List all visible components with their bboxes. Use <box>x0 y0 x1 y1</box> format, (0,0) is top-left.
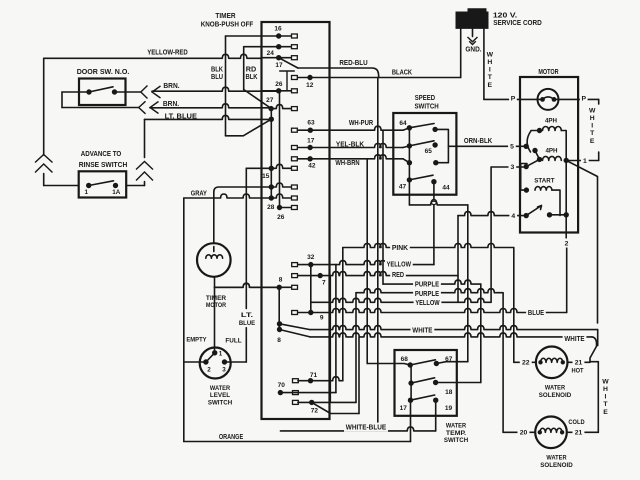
svg-text:SWITCH: SWITCH <box>444 437 468 444</box>
timer terminal rect 12 <box>292 76 298 80</box>
wire timer row 70 <box>280 392 336 394</box>
svg-text:WHITE-BLUE: WHITE-BLUE <box>346 425 387 432</box>
svg-text:ORN-BLK: ORN-BLK <box>464 136 493 145</box>
wire rail 67 <box>467 205 469 362</box>
svg-text:P: P <box>511 95 516 102</box>
wire timer row 32 YELLOW <box>298 261 434 265</box>
wire plug hot drop <box>460 28 462 77</box>
wire BLACK rail <box>377 78 379 431</box>
label WHITE B <box>563 334 587 343</box>
wire timer motor to wls <box>214 277 216 353</box>
svg-text:EMPTY: EMPTY <box>186 337 207 344</box>
wire speed 47 drop <box>408 180 410 205</box>
wire coil 4ph2 <box>543 156 562 160</box>
wire speed F stub <box>436 146 449 162</box>
wire WHITE-BLUE row <box>280 427 435 431</box>
timer terminal rect 7 <box>292 274 298 278</box>
wire BLK-BLU elbow blade <box>226 119 272 136</box>
wire motor 1-2 vertical <box>565 160 567 238</box>
wire coil start <box>535 187 552 191</box>
timer terminal rect 15 <box>292 166 298 170</box>
timer terminal rect 70 <box>293 391 299 395</box>
timer contact dot 24 <box>276 55 281 60</box>
wire timer row 24 <box>262 57 292 59</box>
timer terminal rect 32 <box>292 263 298 267</box>
disconnect chevrons rinse right <box>136 162 153 181</box>
label YELLOW 1 <box>385 259 413 268</box>
label 3 <box>509 162 517 171</box>
wire solenoid 21 bracket <box>597 362 599 433</box>
timer contact dot lt-blue <box>269 117 274 122</box>
door switch terminal right <box>112 89 117 94</box>
wire rail YELLOW to 70row <box>335 265 337 393</box>
label PURPLE 1 <box>413 280 441 289</box>
wire hot right lead <box>568 361 591 363</box>
wire vertical 8a to 8b <box>278 287 280 329</box>
svg-text:WATER: WATER <box>446 422 466 429</box>
120V service cord plug <box>456 9 488 29</box>
wire LT BLUE wire <box>145 115 272 119</box>
wire white P-1 bracket lower <box>598 152 600 161</box>
svg-text:LT.: LT. <box>241 312 253 319</box>
svg-text:PURPLE: PURPLE <box>415 291 440 298</box>
wire cold elbow <box>503 431 535 433</box>
wire white P-1 bracket upper <box>598 99 600 104</box>
svg-text:YELLOW: YELLOW <box>415 300 440 307</box>
water temp switch box <box>395 350 457 416</box>
wire timer row 72 <box>298 401 356 403</box>
wire cold right lead <box>567 431 599 433</box>
svg-text:19: 19 <box>445 405 453 412</box>
wire RD-BLK blade to 27 <box>244 90 271 109</box>
svg-text:3: 3 <box>222 367 226 374</box>
svg-text:8: 8 <box>277 337 281 344</box>
wire hot 21 stub <box>590 361 598 363</box>
svg-text:LEVEL: LEVEL <box>210 392 230 399</box>
wire timer row 26b <box>280 207 292 209</box>
wire timer row 26a <box>262 90 292 92</box>
svg-text:17: 17 <box>275 62 283 69</box>
advance-to-rinse switch box <box>79 171 127 197</box>
wire ORN-BLK row <box>456 145 526 147</box>
wire elbow to dot 68 <box>367 364 410 366</box>
svg-text:20: 20 <box>520 430 528 437</box>
wire gnd stub <box>472 28 474 36</box>
svg-text:2: 2 <box>207 367 211 374</box>
water solenoid HOT <box>536 347 568 379</box>
svg-text:WH-PUR: WH-PUR <box>349 118 374 127</box>
svg-text:MOTOR: MOTOR <box>538 67 559 76</box>
wire door sw left loop top <box>62 91 89 93</box>
wire BRN wire 1 <box>152 87 279 91</box>
motor overload protector <box>538 89 559 110</box>
wire cold coil <box>540 428 562 432</box>
svg-text:27: 27 <box>266 97 274 104</box>
wire row 8 feed <box>215 283 280 287</box>
wire rail motor3 <box>490 167 492 302</box>
timer terminal rect 42 <box>292 157 298 161</box>
wire blade 24 to 17 row <box>279 58 298 68</box>
wire rail PURPLE2 to 72row <box>355 293 357 403</box>
svg-text:24: 24 <box>267 50 275 57</box>
timer contact dot 27 <box>268 106 273 111</box>
svg-text:68: 68 <box>401 356 409 363</box>
svg-text:RED: RED <box>392 272 404 279</box>
wire row 12 to junction <box>330 77 461 79</box>
label WHITE-BLUE <box>344 423 388 432</box>
svg-text:4PH: 4PH <box>545 118 557 125</box>
wire timer row 12 <box>298 77 330 79</box>
svg-text:RED-BLU: RED-BLU <box>339 58 367 67</box>
timer contact dot 42 <box>307 156 312 161</box>
svg-text:BLUE: BLUE <box>528 310 544 317</box>
wire RD-BLK vertical <box>243 47 245 90</box>
wire timer row 17b YEL-BLK <box>298 144 403 148</box>
wire WH-BRN into speed sw <box>403 159 409 163</box>
svg-text:BRN.: BRN. <box>163 81 179 90</box>
wire lt blue drop to rinse <box>144 119 146 157</box>
timer terminal rect row2 <box>292 45 298 49</box>
wire wire to rinse switch <box>44 185 79 187</box>
wire elbow to dot 67 <box>436 362 467 364</box>
rinse terminal 1A <box>113 183 118 188</box>
motor junction dot 1 <box>564 158 569 163</box>
svg-text:65: 65 <box>425 148 433 155</box>
svg-text:21: 21 <box>575 360 583 367</box>
motor dot 5 <box>524 144 529 149</box>
timer terminal rect 8a <box>292 285 298 289</box>
wire wls blade <box>206 353 215 362</box>
protector dot right <box>552 97 557 102</box>
start coil left dot <box>524 187 529 192</box>
wire plug white drop <box>483 28 485 99</box>
wire timer row 42 WH-BRN <box>298 155 403 159</box>
timer terminal rect 9 <box>292 311 298 315</box>
label P right <box>580 94 588 103</box>
wire YEL-BLK into speed sw <box>403 146 409 148</box>
timer contact dot 26a <box>276 88 281 93</box>
wire LT BLUE 2 vertical lower <box>245 328 247 363</box>
svg-text:5: 5 <box>510 144 514 151</box>
timer contact dot 12 <box>307 75 312 80</box>
wire rail PINK to hot <box>513 248 515 363</box>
timer contact dot 8b1 <box>277 321 282 326</box>
wire wls 2 lead <box>184 361 206 363</box>
svg-text:PINK: PINK <box>392 245 408 252</box>
svg-text:26: 26 <box>275 81 283 88</box>
svg-text:P: P <box>582 95 587 102</box>
svg-text:18: 18 <box>445 389 453 396</box>
wire temp blade mid <box>411 378 435 383</box>
wire coil1 right lead <box>561 131 566 161</box>
svg-text:1: 1 <box>583 158 587 165</box>
svg-text:SPEED: SPEED <box>415 93 435 102</box>
wire coil 4ph1 <box>543 126 562 130</box>
wire rail WH-PUR to PURPLE1 <box>382 130 384 284</box>
wire timer motor coil <box>206 255 223 258</box>
svg-text:1: 1 <box>85 189 89 196</box>
push-off cam symbol <box>279 71 295 91</box>
svg-text:BLK: BLK <box>245 72 258 81</box>
coil2 left dot <box>537 157 542 162</box>
wire door sw right lead <box>115 91 141 93</box>
svg-text:YELLOW-RED: YELLOW-RED <box>147 48 188 57</box>
wire speed left column <box>408 128 410 180</box>
speed dot 47 <box>407 177 412 182</box>
timer contact dot 28 <box>269 195 274 200</box>
temp dot 17c <box>408 398 413 403</box>
wire timer vertical 279 <box>279 91 281 208</box>
speed dot 65 <box>432 142 437 147</box>
wire door sw loop bottom <box>62 107 139 109</box>
wire motor 2 drop <box>566 248 568 313</box>
svg-text:START: START <box>534 177 554 184</box>
timer contact dot 8b2 <box>277 327 282 332</box>
wire timer row 8a <box>215 283 292 287</box>
wire coil1 left lead <box>531 130 540 132</box>
label P left <box>509 94 517 103</box>
svg-text:70: 70 <box>278 382 286 389</box>
label PURPLE 2 <box>413 289 441 298</box>
wire start switch link <box>550 214 567 216</box>
wire WHITE row B <box>310 333 592 337</box>
wls dot 2 <box>203 359 208 364</box>
start switch dot <box>547 212 552 217</box>
wire timer row 16 <box>226 35 292 37</box>
svg-text:ADVANCE TO: ADVANCE TO <box>81 149 122 158</box>
svg-text:28: 28 <box>267 204 275 211</box>
timer contact dot 32 <box>308 262 313 267</box>
svg-text:TEMP.: TEMP. <box>446 430 466 437</box>
svg-text:SERVICE CORD: SERVICE CORD <box>493 18 542 27</box>
speed dot E <box>407 160 412 165</box>
svg-text:16: 16 <box>274 25 282 32</box>
wire BLK-BLU vertical <box>225 36 227 136</box>
wire left drop lower <box>43 174 45 186</box>
timer terminal rect 28 <box>292 196 298 200</box>
svg-text:WATER: WATER <box>545 385 565 392</box>
wire rail PINK to 71row <box>342 248 344 381</box>
wire start coil right lead <box>552 190 560 215</box>
speed dot B <box>432 127 437 132</box>
label 21 cold <box>573 428 585 437</box>
wire hot elbow <box>514 361 536 363</box>
label 20 <box>518 428 530 437</box>
wire motor 3 blade <box>526 159 539 166</box>
timer contact dot 8a <box>277 285 282 290</box>
svg-text:SOLENOID: SOLENOID <box>540 462 572 469</box>
wire speed B to ORN-BLK <box>435 129 456 146</box>
timer contact dot mid <box>269 184 274 189</box>
timer terminal rect 26b <box>292 206 298 210</box>
svg-text:KNOB-PUSH OFF: KNOB-PUSH OFF <box>201 20 254 29</box>
wire wls 3 lead <box>225 361 247 363</box>
svg-text:SWITCH: SWITCH <box>414 102 438 111</box>
svg-text:WHITE: WHITE <box>412 327 432 334</box>
svg-text:SOLENOID: SOLENOID <box>539 392 571 399</box>
temp dot 19 <box>433 398 438 403</box>
svg-text:HOT: HOT <box>571 368 584 375</box>
svg-text:GND.: GND. <box>465 45 481 54</box>
cold dot left <box>538 430 542 434</box>
temp dot mid-l <box>408 380 413 385</box>
wire motor 3 row <box>491 166 526 168</box>
svg-text:GRAY: GRAY <box>191 189 207 198</box>
wire RED-BLU wire <box>330 68 379 78</box>
svg-text:44: 44 <box>442 185 450 192</box>
wire timer-motor feed elbow <box>214 187 247 244</box>
svg-text:15: 15 <box>262 173 270 180</box>
wls dot 3 <box>222 359 227 364</box>
svg-text:COLD: COLD <box>568 419 584 426</box>
wire rinse switch blade <box>89 181 114 186</box>
svg-text:63: 63 <box>307 119 315 126</box>
motor box <box>520 77 578 233</box>
wire rinse right lead <box>126 185 144 187</box>
wire rail 42 to 68 <box>366 159 368 364</box>
motor dot 4 <box>524 213 529 218</box>
wire slant 8b1 to white row <box>280 324 311 330</box>
svg-text:RINSE SWITCH: RINSE SWITCH <box>79 160 128 169</box>
wire motor P right <box>555 98 599 100</box>
rinse terminal 1 <box>86 183 91 188</box>
wire rail PURPLE2 to cold <box>502 293 504 432</box>
disconnect symbol BRN 2 <box>139 101 159 114</box>
svg-text:WATER: WATER <box>210 385 230 392</box>
wire timer motor inner lead <box>213 247 215 252</box>
wire slant 8b2 to row B <box>280 330 311 337</box>
wire speed 44 drop a <box>433 182 435 200</box>
svg-text:32: 32 <box>307 254 315 261</box>
wire start switch blade <box>526 206 541 216</box>
wire PURPLE row 2 <box>356 289 503 293</box>
wire timer row 9 BLUE <box>298 309 567 313</box>
wire rail 18 <box>480 284 482 382</box>
svg-text:4: 4 <box>511 213 515 220</box>
svg-text:1: 1 <box>219 350 223 357</box>
timer terminal rect 24 <box>292 56 298 60</box>
wire YELLOW-RED <box>44 54 262 58</box>
timer contact dot 63 <box>308 128 313 133</box>
wire start coil left bracket <box>521 164 527 191</box>
door switch box <box>79 79 126 106</box>
timer terminal rect 17b <box>292 146 298 150</box>
svg-text:72: 72 <box>311 408 319 415</box>
ground symbol <box>468 37 478 45</box>
wire temp blade 17 <box>411 395 435 400</box>
label YELLOW 2 <box>414 298 442 307</box>
wire speed blade 64 <box>409 124 434 128</box>
wire yellow-red left drop <box>43 58 45 155</box>
wire GRAY row <box>184 194 292 198</box>
wire rinse right drop <box>144 182 146 186</box>
svg-text:WHITE: WHITE <box>564 336 584 343</box>
wire coil2 left lead <box>535 151 540 160</box>
svg-text:21: 21 <box>575 430 583 437</box>
water solenoid COLD <box>535 417 567 449</box>
wire wls left rail <box>183 198 185 442</box>
svg-text:17: 17 <box>307 137 315 144</box>
label WHITE A <box>411 325 435 334</box>
motor dot 2col <box>564 212 569 217</box>
svg-text:WATER: WATER <box>546 454 566 461</box>
timer contact dot row2 <box>276 44 281 49</box>
wire door sw left loop drop <box>61 92 63 108</box>
water level switch circle <box>200 348 231 379</box>
temp dot 18 <box>433 380 438 385</box>
label 2 <box>563 239 571 248</box>
timer terminal rect 26a <box>292 89 298 93</box>
wire WHITE row A <box>310 326 598 330</box>
wire speed blade 65 <box>409 141 434 146</box>
wire door switch blade <box>89 87 113 92</box>
wire motor P row <box>484 98 543 100</box>
svg-text:3: 3 <box>511 164 515 171</box>
svg-text:1A: 1A <box>112 189 121 196</box>
svg-text:64: 64 <box>399 120 407 127</box>
speed dot 64 <box>407 125 412 130</box>
label BLUE <box>526 308 546 317</box>
timer terminal rect mid <box>292 185 298 189</box>
motor dot mid <box>532 148 537 153</box>
wire timer row 15 <box>246 164 291 168</box>
label 4 <box>509 211 517 220</box>
wire timer row 71 <box>298 377 343 381</box>
label 5 <box>508 142 516 151</box>
svg-text:4PH: 4PH <box>545 148 557 155</box>
timer terminal rect 27 <box>292 107 298 111</box>
timer contact dot 71 <box>308 378 313 383</box>
label 22 <box>520 358 532 367</box>
wire vertical 32 to 9 <box>310 265 312 313</box>
label BLUE v <box>237 318 257 327</box>
wire white A corner down <box>597 330 599 346</box>
wire protector blade <box>543 97 555 99</box>
wire blade 72 <box>312 402 359 413</box>
wire speed blade 47 <box>409 175 433 180</box>
wire speed 44 drop b <box>433 205 435 265</box>
wire YELLOW row 2 <box>311 298 491 302</box>
wire rail RED to 72row <box>329 276 331 403</box>
wire temp blade 68 <box>410 360 435 365</box>
wire white B corner down <box>592 337 597 346</box>
wire temp 19 drop <box>435 400 437 431</box>
wire ORANGE row <box>184 441 411 443</box>
svg-text:TIMER: TIMER <box>206 295 226 302</box>
hot dot right <box>561 360 565 364</box>
svg-text:FULL: FULL <box>225 338 241 345</box>
wire temp 17 drop <box>410 400 412 441</box>
timer box <box>262 22 330 419</box>
label RED <box>390 270 406 279</box>
label 1 <box>581 156 589 165</box>
wire temp 68 inner link <box>410 365 412 400</box>
wire BRN wire 2 <box>150 104 271 108</box>
coil1 left dot <box>537 128 542 133</box>
wire PINK row <box>343 244 514 248</box>
timer terminal rect 16 <box>292 34 298 38</box>
timer contact dot 15 <box>269 166 274 171</box>
wire centrifugal arc <box>527 131 531 152</box>
svg-text:WH-BRN: WH-BRN <box>335 158 359 167</box>
svg-text:9: 9 <box>320 315 324 322</box>
temp dot 67 <box>434 361 439 366</box>
wire motor 1 row <box>566 160 599 162</box>
wire timer row 2 <box>244 46 292 48</box>
door switch terminal left <box>86 89 91 94</box>
disconnect symbol BRN 1 <box>141 86 161 99</box>
motor dot 3 <box>524 164 529 169</box>
